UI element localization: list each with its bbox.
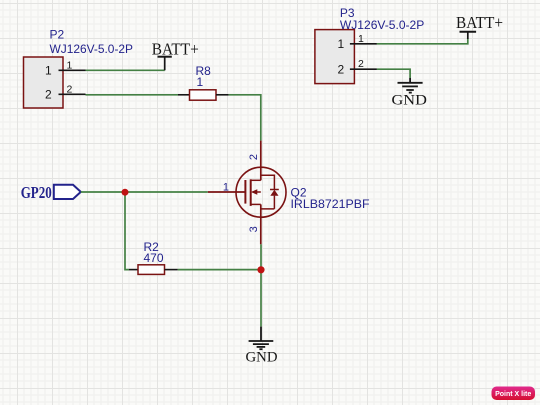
ground symbol GND (right) [392, 78, 427, 109]
svg-text:1: 1 [67, 60, 73, 72]
channel bar [250, 179, 252, 206]
source pin stub [260, 204, 262, 244]
power flag BATT+ (left) [152, 39, 199, 70]
junction B dot [257, 266, 264, 273]
wire junction B to GND [260, 270, 262, 327]
svg-text:3: 3 [248, 226, 260, 232]
P2 pin 1 [59, 69, 86, 71]
svg-text:P2: P2 [50, 27, 65, 41]
net port GP20 [21, 183, 81, 202]
svg-text:WJ126V-5.0-2P: WJ126V-5.0-2P [340, 18, 424, 32]
svg-text:IRLB8721PBF: IRLB8721PBF [291, 197, 370, 211]
gate bar [244, 180, 246, 204]
drain pin stub [260, 141, 262, 181]
svg-text:1: 1 [223, 182, 229, 194]
ground symbol GND (bottom) [246, 327, 278, 366]
svg-text:1: 1 [337, 37, 344, 51]
wire P2 pin1 to BATT+ [86, 69, 165, 71]
wire junction A down to R2 [125, 192, 129, 270]
wire R2 to junction B [178, 269, 261, 271]
wire P2 pin2 to R8 [86, 94, 179, 96]
svg-text:2: 2 [248, 154, 260, 160]
svg-text:2: 2 [45, 88, 52, 102]
wire junction A to Q2 gate [125, 191, 208, 193]
wire Q2 source to junction B [260, 244, 262, 269]
transistor Q2 (IRLB8721PBF N-MOSFET) [208, 141, 286, 245]
svg-text:GND: GND [392, 93, 427, 109]
svg-text:1: 1 [45, 64, 52, 78]
connector P2 body [24, 57, 64, 108]
svg-text:BATT+: BATT+ [456, 13, 503, 32]
svg-text:470: 470 [144, 251, 164, 265]
svg-text:BATT+: BATT+ [152, 39, 199, 58]
power flag BATT+ (right) [456, 13, 503, 39]
gate pin stub [208, 191, 246, 193]
svg-text:GP20: GP20 [21, 183, 52, 202]
watermark badge Point X lite [492, 387, 536, 401]
source arrow [253, 191, 261, 193]
svg-text:GND: GND [246, 349, 278, 365]
svg-text:Point X lite: Point X lite [495, 391, 531, 398]
wire R8 to Q2 drain [229, 95, 261, 141]
svg-text:2: 2 [337, 63, 344, 77]
resistor R2 [129, 265, 178, 275]
wire P3 pin1 to BATT+ [377, 39, 468, 44]
junction A dot [122, 189, 129, 196]
svg-text:2: 2 [358, 58, 364, 70]
wire P3 pin2 to GND [377, 69, 410, 78]
svg-text:1: 1 [358, 33, 364, 45]
connector P3 body [315, 30, 355, 84]
drain connect [251, 179, 261, 181]
svg-text:1: 1 [197, 75, 204, 89]
P3 pin 2 [350, 68, 377, 70]
wire GP20 to junction A [81, 191, 125, 193]
source connect [251, 203, 261, 205]
P2 pin 2 [59, 93, 86, 95]
P3 pin 1 [350, 43, 377, 45]
svg-text:2: 2 [67, 84, 73, 96]
svg-text:WJ126V-5.0-2P: WJ126V-5.0-2P [50, 42, 134, 56]
resistor R8 [178, 90, 229, 100]
body diode branch [261, 175, 275, 209]
